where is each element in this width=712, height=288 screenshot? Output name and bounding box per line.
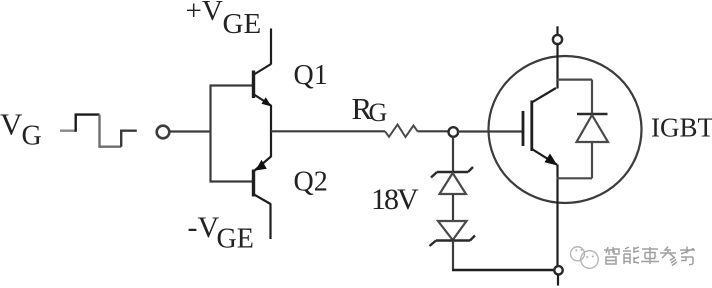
svg-text:GE: GE (223, 8, 262, 40)
wire between zeners (452, 194, 454, 221)
wire collector stub (556, 26, 558, 35)
svg-text:Q2: Q2 (294, 167, 328, 198)
node emitter bottom (554, 266, 562, 274)
IGBT circle (489, 56, 642, 203)
char zhi (604, 247, 619, 264)
label RG (352, 91, 388, 127)
wire -VGE lead (269, 204, 271, 240)
watermark text (604, 247, 695, 266)
wire node to zener chain (452, 137, 454, 172)
wire base rail to Q2 base (210, 180, 254, 182)
resistor RG (385, 125, 418, 138)
wire emitter below node (557, 275, 559, 286)
wire emitter down (556, 165, 558, 267)
svg-text:G: G (369, 98, 388, 127)
label -VGE (188, 211, 254, 255)
wire output to resistor (271, 130, 385, 132)
pulse waveform (60, 115, 137, 147)
char che (641, 247, 659, 264)
char neng (623, 247, 639, 264)
wire zener to bottom rail (452, 241, 454, 271)
zener D2 (430, 221, 476, 246)
svg-text:IGBT: IGBT (651, 113, 712, 143)
svg-text:-V: -V (188, 211, 220, 244)
wire +VGE lead (270, 29, 272, 65)
svg-text:GE: GE (217, 224, 254, 255)
base rail (209, 85, 211, 183)
diode D3 freewheel (557, 80, 609, 179)
input terminal (157, 126, 170, 139)
zener D1 (431, 167, 473, 194)
svg-text:V: V (0, 107, 23, 142)
transistor Q1 (254, 64, 272, 107)
terminal collector top (553, 35, 562, 44)
node gate junction (449, 127, 459, 137)
IGBT symbol (523, 88, 558, 166)
watermark logo (571, 247, 599, 268)
label +VGE (186, 0, 262, 40)
wire bottom rail (452, 269, 555, 271)
transistor Q2 (254, 157, 272, 205)
char can (660, 247, 677, 266)
svg-text:Q1: Q1 (294, 60, 328, 91)
wire node to IGBT gate (458, 130, 522, 132)
char kao (680, 247, 695, 265)
label VG (0, 107, 42, 152)
svg-text:18V: 18V (371, 183, 419, 216)
wire base rail to Q1 base (210, 84, 254, 86)
wire collector into circle (556, 44, 558, 89)
svg-text:+V: +V (186, 0, 223, 27)
svg-text:G: G (22, 121, 42, 152)
wire input to base rail (170, 130, 211, 132)
wire emitter column (270, 105, 272, 157)
wire resistor to node (418, 130, 449, 132)
